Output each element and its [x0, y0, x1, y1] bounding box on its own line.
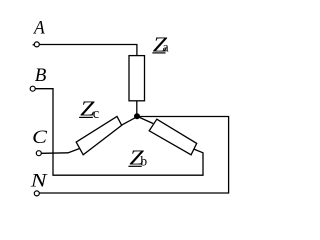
svg-text:B: B	[35, 65, 47, 86]
svg-text:c: c	[93, 106, 99, 122]
svg-text:N: N	[30, 170, 49, 191]
svg-text:A: A	[32, 18, 45, 39]
svg-text:C: C	[32, 127, 47, 148]
